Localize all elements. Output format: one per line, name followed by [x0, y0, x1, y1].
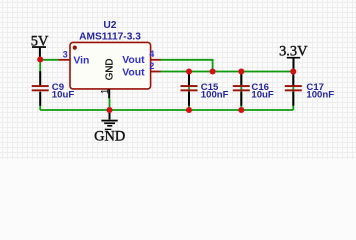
- wire: C16 vertical: [240, 72, 242, 111]
- wire: pin4 to drop: [160, 60, 213, 72]
- wire: C15 vertical: [188, 72, 190, 111]
- svg-text:GND: GND: [94, 128, 125, 144]
- svg-text:Vin: Vin: [73, 55, 89, 66]
- junction: C16 top: [238, 68, 244, 74]
- junction: pin4 drop: [210, 68, 216, 74]
- junction: pin1/bottom rail: [106, 107, 112, 113]
- svg-text:AMS1117-3.3: AMS1117-3.3: [79, 31, 141, 42]
- svg-text:100nF: 100nF: [306, 89, 334, 100]
- svg-text:Vout: Vout: [122, 67, 145, 78]
- svg-text:2: 2: [149, 61, 154, 71]
- svg-text:U2: U2: [103, 20, 116, 31]
- wire: mid 3.3V rail: [160, 71, 293, 73]
- junction: 5V node: [37, 56, 43, 62]
- svg-text:GND: GND: [105, 59, 116, 81]
- capacitor C9: [32, 71, 49, 105]
- svg-text:3: 3: [63, 49, 68, 59]
- junction: C15 top: [186, 68, 192, 74]
- power port 5V: [31, 34, 49, 60]
- wire: 5V junction down to C9: [39, 59, 41, 72]
- svg-text:10uF: 10uF: [52, 89, 75, 100]
- wire: 5V junction to pin3: [40, 59, 58, 61]
- junction: C15 bottom: [186, 107, 192, 113]
- capacitor C16: [233, 72, 250, 106]
- capacitor C17: [285, 72, 302, 106]
- capacitor C15: [181, 72, 198, 106]
- pin 4 of U2: [151, 59, 161, 61]
- pin 3 of U2: [59, 59, 70, 61]
- pin 2 of U2: [151, 71, 161, 73]
- pin 1 of U2: [108, 89, 110, 98]
- svg-text:1: 1: [100, 88, 111, 94]
- svg-text:Vout: Vout: [122, 55, 145, 66]
- wire: bottom GND rail: [40, 109, 293, 111]
- power port 3.3V: [279, 44, 308, 71]
- wire: pin 1 to bottom rail: [109, 98, 111, 110]
- pin-1 marker dot: [73, 46, 77, 50]
- wire: C17 vertical: [292, 72, 294, 111]
- svg-text:4: 4: [149, 49, 154, 59]
- regulator U2 body: [70, 42, 151, 89]
- svg-text:100nF: 100nF: [201, 89, 229, 100]
- junction: C16 bottom: [238, 107, 244, 113]
- junction: 3.3V node: [290, 68, 296, 74]
- svg-text:10uF: 10uF: [251, 89, 274, 100]
- wire: C9 bottom to bottom rail: [39, 105, 41, 110]
- ground symbol GND: [94, 110, 125, 144]
